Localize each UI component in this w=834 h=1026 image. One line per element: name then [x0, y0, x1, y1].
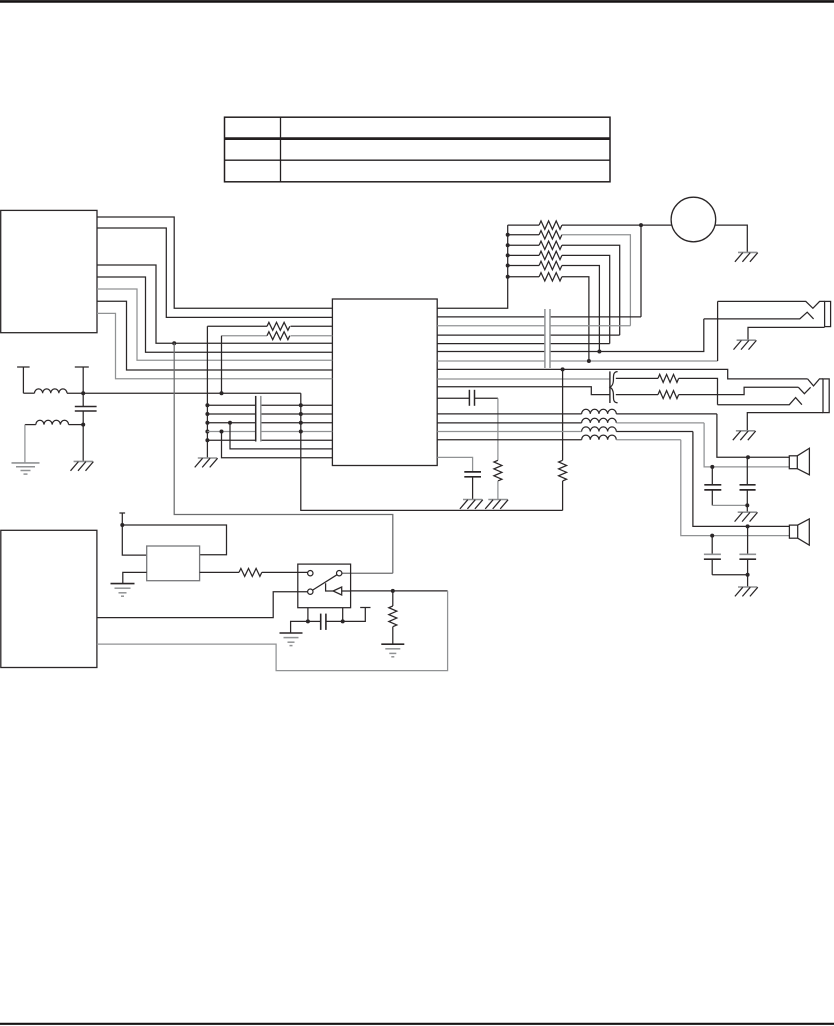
- junction dot mic node: [639, 223, 643, 227]
- resistor R14: [389, 591, 397, 644]
- jack J2 body: [825, 301, 831, 326]
- switch SW1 contact circle BL: [308, 589, 313, 594]
- earth ground G11: [111, 584, 135, 597]
- wire T3 to U2 left pin1: [122, 525, 146, 555]
- inductor L3: [437, 409, 717, 414]
- switch SW1 box: [298, 564, 351, 608]
- jack J2 ring contact: [704, 312, 814, 319]
- wire to U1 pin15: [230, 423, 332, 449]
- terminal T1: [17, 367, 30, 393]
- wire C5 to C6 node: [712, 573, 749, 577]
- jack J3 lower contact: [718, 398, 802, 405]
- switch SW1 lever tap: [326, 583, 334, 591]
- wire U1 p1 to resistor-stack feed: [437, 225, 508, 308]
- wire spine line to U1 pin13: [207, 430, 332, 434]
- inductor L2: [25, 420, 83, 424]
- switch SW1 contact circle TR: [337, 571, 342, 576]
- resistor R11: [494, 460, 502, 499]
- transformer TR1 bar: [609, 371, 611, 403]
- wire cap node to chassis ground: [82, 425, 84, 462]
- wire J1 pin6 to U1 left pin8: [97, 301, 332, 370]
- jack J3 tip contact kink: [808, 379, 823, 386]
- chassis ground G10 (R11): [485, 500, 508, 509]
- earth ground G1: [12, 463, 40, 474]
- capacitor C3: [704, 467, 721, 506]
- wire R2 drop to AGND bus: [221, 336, 223, 394]
- inductor L4: [437, 418, 704, 423]
- resistor R12: [559, 369, 567, 510]
- wire mic right lead to ground: [715, 225, 747, 252]
- wire C3 to C4 node: [712, 503, 749, 507]
- wire J1 pin7 to U1 left pin9: [97, 313, 332, 378]
- wire SW1 bottom stub right: [341, 608, 345, 624]
- inductor L1: [23, 389, 83, 393]
- node spine with ties to U1 left lower pins: [205, 403, 209, 442]
- ground bus AGND (horizontal): [83, 392, 301, 394]
- wire U1 p10 to transformer: [437, 387, 610, 395]
- wire L4 to speaker SP1 minus: [704, 423, 789, 469]
- resistor R5 (stack row3): [508, 241, 620, 335]
- wire U1 p15 to capacitor C7: [437, 457, 472, 471]
- resistor R13: [200, 568, 308, 576]
- wire L6 to speaker SP2 minus: [681, 440, 790, 538]
- connector bars CN3 (right pair): [545, 309, 550, 368]
- wire U1 p4: [437, 334, 620, 336]
- wire spine line to U1 pin12: [207, 421, 332, 425]
- chassis ground G8 (SP2 caps): [735, 587, 758, 596]
- terminal T2: [75, 367, 89, 393]
- wire J1 pin5 to U1 left pin7: [97, 289, 332, 360]
- wire C2 to resistor R11: [497, 398, 499, 460]
- wire J3 sleeve to ground: [747, 413, 823, 431]
- chassis ground G5 (jack J2): [734, 340, 757, 349]
- wire J2 sleeve to ground: [748, 327, 825, 340]
- chassis ground G9 (C7): [460, 500, 483, 509]
- wire to U1 pin16: [222, 432, 333, 458]
- resistor R6 (stack row4): [508, 251, 610, 343]
- capacitor C8: [308, 614, 343, 630]
- IC U1 (center): [332, 299, 437, 466]
- wire U1 p5: [437, 343, 610, 345]
- wire J1 pin3 to U1 left pin5: [97, 265, 332, 343]
- microphone MIC1: [671, 197, 716, 242]
- connector block J4 (bottom-left): [1, 530, 97, 667]
- earth ground G12 (C8): [280, 633, 303, 646]
- wire U2 left pin2 to earth ground: [123, 572, 147, 583]
- wire L2 to earth ground: [24, 425, 26, 463]
- junction dot on pin5 line: [172, 341, 176, 345]
- wire mic node drop to U1 p2: [437, 225, 641, 317]
- wire U1 p7 to jack J2 tip: [437, 301, 717, 363]
- wire spine line to U1 pin14: [207, 439, 332, 441]
- wire inverter output: [342, 589, 448, 593]
- wire J1 pin2 to U1 left pin2: [97, 228, 332, 317]
- jack J3 body: [823, 379, 829, 413]
- resistor R10: [616, 387, 799, 398]
- wire control net pin5-node to switch common: [174, 343, 393, 573]
- terminal T3: [119, 513, 125, 525]
- jack J2 tip contact: [718, 301, 825, 308]
- speaker SP1: [789, 448, 809, 475]
- jack J3 ring contact kink: [798, 387, 810, 393]
- inductor L5: [437, 427, 693, 432]
- chassis ground G2: [71, 461, 94, 470]
- capacitor C4: [740, 457, 756, 512]
- node feed dots: [506, 233, 510, 279]
- sub-block U2: [147, 546, 200, 581]
- wire spine line to U1 pin11: [207, 412, 332, 416]
- terminal T4: [343, 608, 371, 622]
- inverter A1 triangle: [333, 587, 342, 595]
- wire U1 p9 to transformer: [437, 378, 610, 380]
- transformer TR1 brace: [610, 372, 618, 403]
- capacitor C5: [704, 536, 721, 575]
- earth ground G13 (R14): [381, 644, 404, 657]
- wire mic left lead: [641, 224, 672, 226]
- resistor R2: [222, 332, 333, 340]
- junction dot filter node: [81, 391, 85, 395]
- junction dot AGND x221: [220, 391, 224, 395]
- wire U1 p3: [437, 325, 630, 327]
- chassis ground G6 (jack J3): [733, 431, 756, 440]
- wire U1 p6 to jack J2 ring: [437, 319, 704, 354]
- capacitor C7: [464, 472, 481, 500]
- wire L3 to speaker SP1 plus: [717, 414, 789, 459]
- page top rule: [0, 0, 834, 3]
- wire R1 drop to ground spine: [206, 326, 208, 458]
- connector block J1 (top-left): [1, 210, 97, 332]
- resistor R9: [616, 374, 718, 404]
- wire J1 pin4 to U1 left pin6: [97, 277, 332, 352]
- capacitor C6: [739, 526, 756, 586]
- page bottom rule: [0, 1023, 834, 1025]
- wire J4 pin1 to switch BL: [97, 592, 308, 618]
- resistor R1: [207, 322, 332, 330]
- resistor R8 (stack row6): [508, 273, 589, 361]
- wire switch TR to control net: [342, 572, 393, 574]
- revision table: [225, 117, 611, 182]
- wire L5 to speaker SP2 plus: [693, 432, 790, 529]
- wire T3 loop to U2 right pin1: [122, 525, 226, 555]
- wire C8 left to earth ground: [291, 621, 308, 632]
- speaker SP2: [789, 519, 809, 545]
- capacitor C2: [437, 390, 498, 406]
- connector bars CN2 (left pair): [256, 396, 261, 442]
- switch SW1 contact circle TL: [308, 571, 313, 576]
- resistor R3 (stack row1): [508, 221, 641, 229]
- junction dot cap node: [81, 423, 85, 427]
- chassis ground G7 (SP1 caps): [735, 512, 758, 521]
- inductor L6: [437, 435, 681, 440]
- switch SW1 lever: [313, 575, 337, 590]
- wire spine line to U1 pin10: [207, 403, 332, 407]
- resistor R7 (stack row5): [508, 261, 600, 351]
- chassis ground G4 (mic): [735, 252, 758, 261]
- wire AGND drop to rail: [301, 393, 563, 510]
- junction dot T3 node: [120, 523, 124, 527]
- capacitor C1: [75, 393, 97, 424]
- wire SW1 bottom stub left: [306, 608, 310, 624]
- wire J1 pin1 to U1 left pin1: [97, 217, 332, 308]
- chassis ground G3 (spine): [195, 458, 218, 467]
- resistor R4 (stack row2): [508, 231, 631, 326]
- wire U1 p8 to jack J3 tip: [437, 367, 807, 379]
- wire J4 pin2 loop: [97, 591, 448, 671]
